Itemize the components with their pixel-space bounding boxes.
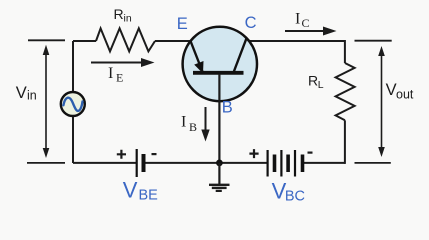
Vin measurement: bottom tick <box>27 162 65 164</box>
svg-text:C: C <box>302 16 310 30</box>
wire: Rin to transistor emitter <box>155 40 191 42</box>
svg-text:BE: BE <box>139 188 159 204</box>
ground <box>218 163 220 185</box>
wire: top-left segment from corner to Rin <box>73 40 96 42</box>
svg-text:I: I <box>295 11 300 28</box>
Vout measurement: bottom tick <box>355 162 391 164</box>
wire: bottom middle segment <box>145 162 268 164</box>
current arrow IE <box>91 62 142 64</box>
resistor R1 (Rin zigzag) <box>96 28 155 51</box>
svg-text:E: E <box>116 71 123 85</box>
Vin measurement: double arrow <box>45 50 47 153</box>
battery V_BC: plate 2 (short) <box>273 155 277 173</box>
current arrow IC <box>285 30 324 32</box>
resistor R2 (RL zigzag) <box>336 63 355 120</box>
sine wave inside AC source <box>63 98 82 111</box>
wire: right vertical top lead <box>344 40 346 63</box>
voltage source V1 (AC) <box>61 92 85 116</box>
Vout measurement: top tick <box>355 40 392 42</box>
junction node dot at base/ground <box>216 160 223 167</box>
wire: bottom right segment <box>303 162 346 164</box>
transistor base bar <box>193 71 244 75</box>
svg-text:I: I <box>181 114 186 131</box>
current arrow IB <box>205 107 207 131</box>
battery V_BE: short plate <box>142 154 146 172</box>
transistor collector line <box>234 39 247 73</box>
svg-text:in: in <box>27 89 37 103</box>
svg-text:V: V <box>16 84 27 102</box>
battery V_BC: plate 6 (short) <box>301 155 305 173</box>
wire: top right segment C to RL corner <box>247 40 346 42</box>
svg-text:V: V <box>123 178 138 203</box>
wire: base vertical down to ground node <box>218 74 220 163</box>
wire: bottom left segment <box>73 162 136 164</box>
battery V_BE: long plate <box>136 149 138 177</box>
battery V_BC: plate 1 (long) <box>267 150 269 177</box>
transistor emitter line <box>191 41 204 73</box>
svg-text:R: R <box>114 6 124 22</box>
svg-text:L: L <box>318 79 324 91</box>
wire: right vertical bottom lead <box>344 120 346 164</box>
svg-text:BC: BC <box>285 189 305 205</box>
battery V_BC: plate 4 (short) <box>286 155 290 173</box>
Vin measurement: top tick <box>28 39 65 41</box>
Vout measurement: double arrow <box>381 51 383 152</box>
svg-text:I: I <box>108 65 113 82</box>
svg-text:E: E <box>177 15 188 33</box>
plus sign for VBC <box>249 149 258 158</box>
battery V_BC: plate 5 (long) <box>294 150 296 177</box>
minus sign for VBE <box>152 153 157 155</box>
transistor Q1 (PNP, common-base) body <box>183 27 257 101</box>
wire: left vertical (Vin branch) <box>72 41 74 163</box>
transistor emitter arrowhead <box>194 61 203 74</box>
svg-text:C: C <box>245 14 257 32</box>
svg-text:in: in <box>124 13 132 25</box>
svg-text:R: R <box>308 73 318 89</box>
svg-text:B: B <box>222 99 233 117</box>
battery V_BC: plate 3 (long) <box>280 150 282 177</box>
minus sign for VBC <box>308 152 313 154</box>
svg-text:B: B <box>189 120 197 134</box>
svg-text:V: V <box>386 81 397 99</box>
plus sign for VBE <box>117 150 126 159</box>
svg-text:out: out <box>396 87 414 101</box>
